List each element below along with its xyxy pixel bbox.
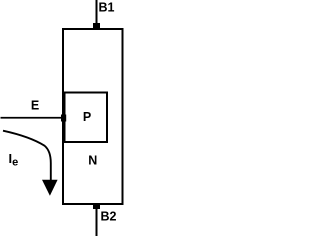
wire B1 lead	[96, 0, 98, 26]
wire E lead	[1, 117, 62, 119]
svg-text:E: E	[31, 99, 39, 113]
P emitter region	[65, 93, 108, 143]
svg-text:P: P	[83, 110, 91, 124]
terminal B2 contact	[93, 204, 100, 209]
terminal E contact	[61, 115, 66, 122]
svg-text:B2: B2	[101, 210, 117, 224]
svg-text:Ie: Ie	[9, 151, 19, 169]
N-type bar body U1	[63, 29, 123, 204]
svg-text:N: N	[88, 154, 97, 168]
terminal B1 contact	[93, 23, 100, 29]
wire B2 lead	[96, 207, 98, 236]
arrow Ie current	[3, 131, 58, 196]
svg-text:B1: B1	[99, 1, 115, 15]
